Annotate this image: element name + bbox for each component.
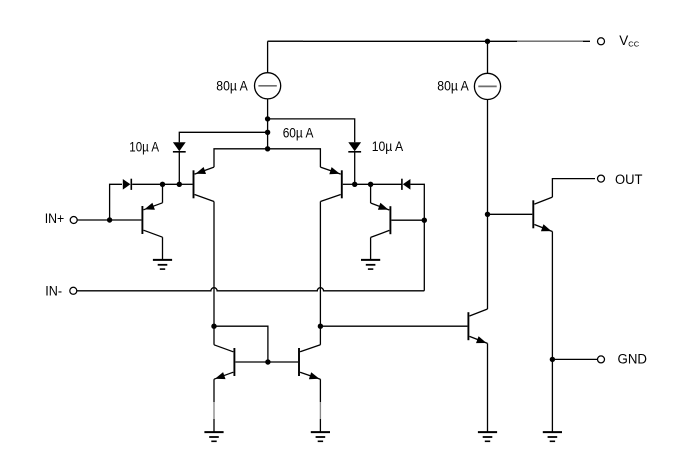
- wire D1 to Q1 base node: [178, 152, 180, 185]
- wire Vcc top rail: [268, 40, 590, 43]
- wire Q7 emitter to ground: [487, 343, 489, 432]
- current source I2 80uA: [474, 41, 500, 99]
- terminal OUT: [598, 175, 605, 182]
- transistor Q3 clamp PNP left: [142, 203, 162, 238]
- wire D4 to IN- column: [410, 184, 424, 290]
- diode D2 10uA right: [348, 142, 361, 152]
- wire Q7 collector up: [487, 214, 489, 309]
- node mirror left junction: [211, 324, 216, 329]
- svg-text:60µ A: 60µ A: [283, 125, 314, 141]
- label Vcc: [619, 33, 640, 49]
- wire Q6 emitter to ground: [319, 379, 321, 432]
- wire Q2 collector down: [319, 202, 321, 327]
- wire Q8 collector to OUT: [552, 179, 595, 198]
- terminal IN+: [70, 217, 77, 224]
- wire dot1 to diode D2: [268, 119, 355, 142]
- wire Q4 emitter drop: [370, 184, 372, 203]
- current source I1 80uA: [255, 41, 281, 99]
- diode D3 clamp left: [123, 179, 132, 190]
- terminal GND: [598, 356, 605, 363]
- wire IN- with hops: [77, 288, 424, 291]
- node Q8 base junction: [485, 212, 490, 217]
- node GND junction: [550, 357, 555, 362]
- transistor Q5 mirror NPN left: [214, 345, 234, 379]
- svg-text:80µ A: 80µ A: [216, 77, 248, 93]
- label IN-: [45, 284, 62, 299]
- wire IN+ junction up to D3: [110, 184, 122, 220]
- ground Q6: [311, 432, 330, 441]
- wire Q4 base: [391, 219, 424, 221]
- wire Q2 base: [343, 183, 355, 185]
- svg-text:CC: CC: [628, 40, 640, 49]
- node dot2 60uA tap: [265, 130, 270, 135]
- label OUT: [615, 172, 643, 187]
- transistor Q1 input PNP left: [194, 167, 215, 202]
- ground Q4: [361, 260, 380, 269]
- wire Q3 collector to ground: [162, 237, 164, 260]
- wire mirror diode connection: [214, 326, 268, 362]
- wire Q5 collector: [213, 326, 215, 345]
- ground Q5: [204, 432, 223, 441]
- wire Q1 collector down: [213, 202, 215, 327]
- terminal IN-: [70, 287, 77, 294]
- label 60uA: [283, 125, 314, 141]
- wire Q4 collector to ground: [370, 237, 372, 260]
- wire dot3 to Q2 emitter: [268, 149, 321, 167]
- wire D3 to Q3 emitter node: [132, 183, 179, 185]
- wire Q5 emitter to ground: [213, 379, 215, 432]
- svg-text:80µ A: 80µ A: [437, 77, 469, 93]
- transistor Q4 clamp PNP right: [371, 203, 391, 238]
- svg-text:IN-: IN-: [45, 284, 62, 299]
- wire I1 to node stack: [267, 99, 269, 149]
- label 10uA left: [129, 138, 159, 154]
- node dot1: [265, 116, 270, 121]
- wire GND stub: [552, 358, 597, 360]
- wire dot2 to diode D1: [179, 132, 267, 142]
- ground Q3: [153, 260, 172, 269]
- node dot3: [265, 146, 270, 151]
- svg-text:10µ A: 10µ A: [372, 138, 404, 154]
- ground Q7: [478, 432, 497, 441]
- svg-text:IN+: IN+: [45, 211, 65, 226]
- wire I2 to Q8 base node: [487, 100, 489, 215]
- wire Q2 base node to D4: [355, 183, 402, 185]
- label 10uA right: [372, 138, 404, 154]
- node Q4 emitter junction: [368, 182, 373, 187]
- transistor Q7 driver NPN: [468, 309, 487, 343]
- svg-text:GND: GND: [618, 351, 648, 366]
- wire Q1 base: [179, 183, 192, 185]
- wire Q8 emitter down: [551, 232, 553, 433]
- node mirror right junction: [318, 324, 323, 329]
- node Vcc-rail junction: [485, 39, 490, 44]
- terminal Vcc: [598, 38, 605, 45]
- svg-text:10µ A: 10µ A: [129, 138, 159, 154]
- wire IN+ to Q3 base: [77, 219, 141, 221]
- wire Q6 collector: [319, 326, 321, 345]
- wire mirror to Q7 base: [320, 325, 467, 327]
- node Q4 base junction: [422, 218, 427, 223]
- svg-text:OUT: OUT: [615, 172, 643, 187]
- label 80uA left: [216, 77, 248, 93]
- diode D1 10uA left: [173, 142, 186, 152]
- node Q3 emitter junction: [160, 182, 165, 187]
- svg-text:V: V: [619, 33, 628, 48]
- node IN+ junction: [107, 217, 112, 222]
- label IN+: [45, 211, 65, 226]
- wire Q3 emitter drop: [162, 184, 164, 203]
- wire D2 to Q2 base node: [354, 152, 356, 185]
- label GND: [618, 351, 648, 366]
- node Q2 base junction: [352, 182, 357, 187]
- transistor Q8 output NPN: [533, 197, 552, 231]
- ground output: [543, 432, 562, 441]
- transistor Q6 mirror NPN right: [299, 345, 320, 380]
- diode D4 clamp right: [402, 179, 411, 190]
- node mirror base junction: [265, 359, 270, 364]
- wire dot3 to Q1 emitter: [214, 149, 268, 167]
- wire mirror base line: [235, 361, 298, 363]
- transistor Q2 input PNP right: [320, 167, 341, 201]
- node Q1 base junction: [177, 182, 182, 187]
- label 80uA right: [437, 77, 469, 93]
- wire Q8 base: [488, 213, 533, 215]
